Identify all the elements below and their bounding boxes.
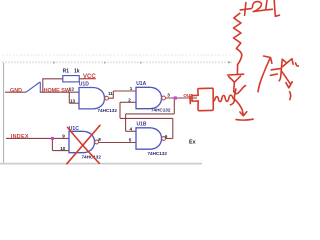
paren mark <box>290 92 291 100</box>
wire feedback A vertical from out3 <box>173 98 175 114</box>
U1D bubble <box>105 96 109 100</box>
resistor R1 box <box>63 76 79 82</box>
wire feedback B up to pin2 <box>119 102 121 118</box>
svg-text:10: 10 <box>60 146 66 151</box>
wire pin13 tie vertical <box>68 92 70 103</box>
U1C bubble <box>95 140 99 144</box>
svg-text:6: 6 <box>165 134 168 139</box>
wire switch to U1D pin 12 <box>40 91 79 93</box>
svg-text:9: 9 <box>62 134 65 139</box>
ruler row 1 <box>2 54 232 56</box>
svg-text:Ex: Ex <box>189 140 196 146</box>
svg-text:1k: 1k <box>74 68 80 74</box>
dash 2 <box>271 74 278 75</box>
annotation +24 plus sign <box>240 3 251 16</box>
ground dash <box>236 118 253 121</box>
resistor squiggle <box>234 13 242 64</box>
transistor Q emitter <box>235 100 243 115</box>
VCC bar <box>83 78 96 80</box>
wire feedback B vertical up <box>172 118 174 138</box>
wire pin10 stub <box>52 150 69 152</box>
LED triangle <box>229 76 241 82</box>
junction node INDEX dot <box>51 137 54 140</box>
svg-text:U1A: U1A <box>136 81 146 87</box>
wire feedback A down to pin4 <box>125 114 127 131</box>
switch right post <box>39 82 41 92</box>
svg-text:5: 5 <box>129 138 132 143</box>
nand gate U1B <box>136 128 162 149</box>
annotation digit 4 <box>266 0 280 16</box>
wire U1D out vertical <box>112 91 114 99</box>
wire R1 left horizontal <box>42 78 63 80</box>
wire U1D out stub <box>109 97 114 99</box>
wire U1D out to U1A pin1 <box>113 90 136 92</box>
svg-text:VCC: VCC <box>83 74 96 80</box>
svg-text:U1B: U1B <box>137 122 147 128</box>
svg-text:74HC132: 74HC132 <box>151 107 171 112</box>
OUT entry bracket <box>190 95 197 103</box>
wire squiggle to LED <box>236 65 238 75</box>
wire INDEX to pin9 <box>6 137 69 139</box>
bottom window line <box>0 163 202 165</box>
nand gate U1D <box>79 88 105 109</box>
wire feedback A horizontal <box>126 113 175 115</box>
crossed transistor bar <box>279 59 282 81</box>
nand gate U1A <box>136 87 162 108</box>
bar top hook <box>282 59 286 63</box>
crossed emitter arrowhead <box>286 82 292 88</box>
far right tick <box>296 63 299 66</box>
svg-text:GND: GND <box>10 88 22 94</box>
LED cathode wire <box>233 82 236 91</box>
wire GND to switch <box>5 91 26 93</box>
annotation digit 2 <box>252 2 264 12</box>
wire R1 pulldown vertical <box>42 79 44 93</box>
LED anode bar <box>228 73 244 76</box>
wire U1B out stub <box>166 138 173 140</box>
svg-text:R1: R1 <box>63 68 70 74</box>
U1B bubble <box>162 137 166 141</box>
sheet left border <box>3 63 5 163</box>
svg-text:3: 3 <box>167 93 170 98</box>
crossed transistor upper arm <box>283 59 294 67</box>
nand gate U1C <box>69 131 95 152</box>
up-right arrow shaft <box>258 59 270 92</box>
wire pin10 tie vertical <box>51 138 53 150</box>
switch SW lever <box>26 82 40 92</box>
base zigzag resistor <box>213 95 233 102</box>
ruler row 2 <box>2 61 232 63</box>
svg-text:12: 12 <box>69 87 75 92</box>
svg-text:13: 13 <box>70 99 76 104</box>
svg-text:4: 4 <box>130 126 133 131</box>
svg-text:INDEX: INDEX <box>11 134 29 140</box>
X over U1C stroke 2 <box>68 127 100 163</box>
transistor Q base bar <box>230 89 236 105</box>
svg-text:U1D: U1D <box>79 82 89 88</box>
U1A bubble <box>162 96 166 100</box>
wire U1C out to U1B pin5 <box>99 142 136 144</box>
wire feedback B horizontal <box>120 117 173 119</box>
wire U1A out to OUT <box>166 97 197 99</box>
svg-text:74HC132: 74HC132 <box>98 108 118 113</box>
crossed transistor emitter arm <box>282 71 291 84</box>
svg-text:2: 2 <box>128 97 131 102</box>
transistor Q collector curve <box>234 86 246 94</box>
wire R1 right to VCC <box>79 78 84 80</box>
emitter arrowhead <box>240 112 247 116</box>
dash 1 <box>271 69 281 70</box>
wire pin4 stub <box>126 130 136 132</box>
svg-text:1: 1 <box>130 86 133 91</box>
X over U1C stroke 1 <box>67 125 100 164</box>
wire pin2 stub <box>120 101 136 103</box>
base resistor box <box>198 88 214 111</box>
wire pin13 stub <box>69 102 79 104</box>
up-right arrowhead <box>264 56 272 63</box>
junction node OUT dot <box>174 96 177 99</box>
svg-text:74HC132: 74HC132 <box>148 151 168 156</box>
svg-text:11: 11 <box>108 91 113 96</box>
svg-text:8: 8 <box>98 137 101 142</box>
svg-text:HOME SW: HOME SW <box>44 88 71 94</box>
ruler specks <box>53 61 230 63</box>
